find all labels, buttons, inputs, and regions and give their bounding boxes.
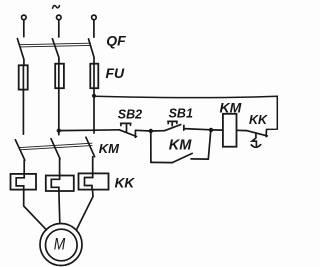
contact KK thermal NC blade xyxy=(247,131,268,136)
svg-text:QF: QF xyxy=(106,32,126,48)
svg-text:M: M xyxy=(54,235,66,254)
svg-text:SB2: SB2 xyxy=(118,108,142,122)
wire L1 fuse to KM xyxy=(22,90,24,135)
svg-text:SB1: SB1 xyxy=(169,107,193,121)
pushbutton SB2 actuator xyxy=(121,123,131,131)
terminal L2 xyxy=(57,15,62,20)
breaker QF pole 2 blade xyxy=(52,39,59,64)
wire SB1 to node xyxy=(184,129,211,130)
node L2 control tap xyxy=(57,129,61,133)
breaker QF pole 1 blade xyxy=(17,39,24,66)
thermal element squiggle xyxy=(251,134,260,148)
contact KM auxiliary blade xyxy=(172,153,192,162)
wire L2 to SB2 xyxy=(59,129,120,132)
pushbutton SB2 blade xyxy=(119,130,136,137)
motor M inner circle xyxy=(46,229,78,261)
pushbutton SB1 fixed contact tick xyxy=(183,125,185,130)
svg-text:KM: KM xyxy=(99,141,120,156)
svg-text:KM: KM xyxy=(169,137,192,153)
node L3 control tap xyxy=(92,94,96,98)
contactor KM linkage bar xyxy=(20,143,92,150)
contact KM auxiliary right wire xyxy=(191,158,208,160)
node SB1 right junction xyxy=(209,128,213,132)
AC supply tilde xyxy=(53,6,60,9)
breaker QF pole 3 blade xyxy=(89,39,95,64)
breaker QF linkage bar xyxy=(20,43,91,47)
wire SB2 to node xyxy=(136,129,151,132)
fuse FU2 xyxy=(55,64,64,88)
contactor KM pole 1 blade xyxy=(15,140,24,174)
contact KM auxiliary right riser xyxy=(208,130,211,159)
contact KM auxiliary bottom wire xyxy=(151,161,172,163)
contactor KM pole 3 blade xyxy=(86,137,95,173)
node SB1 left junction xyxy=(149,129,153,133)
terminal L3 xyxy=(92,15,97,20)
wire node to coil xyxy=(211,129,223,131)
contact KM auxiliary left drop xyxy=(150,131,152,162)
wire L3 fuse to KM xyxy=(93,88,95,133)
wire KK fixed contact tick xyxy=(265,130,267,137)
svg-text:KK: KK xyxy=(115,175,136,190)
wire coil to KK contact xyxy=(237,129,247,131)
coil KM xyxy=(223,114,237,147)
pushbutton SB1 blade xyxy=(165,125,181,131)
svg-text:KM: KM xyxy=(220,99,242,115)
thermal relay KK heater 2 xyxy=(46,176,74,192)
svg-text:FU: FU xyxy=(106,65,126,81)
wire L1 terminal to QF xyxy=(23,20,25,37)
wire L3 terminal to QF xyxy=(93,20,95,37)
wire L2 terminal to QF xyxy=(58,20,60,37)
terminal L1 xyxy=(22,15,27,20)
fuse FU3 xyxy=(90,64,98,88)
wire node to SB1 xyxy=(151,130,165,132)
thermal relay KK heater 1 xyxy=(11,174,37,190)
wire control top line xyxy=(94,96,277,129)
fuse FU1 xyxy=(19,65,28,89)
svg-text:KK: KK xyxy=(249,113,268,127)
motor lead 1 xyxy=(24,190,47,230)
wire L2 fuse to KM xyxy=(58,88,60,135)
pushbutton SB2 fixed contact tick xyxy=(134,130,136,137)
contactor KM pole 2 blade xyxy=(51,139,60,176)
motor lead 3 xyxy=(77,190,94,230)
motor lead 2 xyxy=(58,191,61,223)
thermal relay KK heater 3 xyxy=(79,173,109,189)
pushbutton SB1 actuator xyxy=(168,121,177,125)
motor M outer circle xyxy=(40,224,82,266)
